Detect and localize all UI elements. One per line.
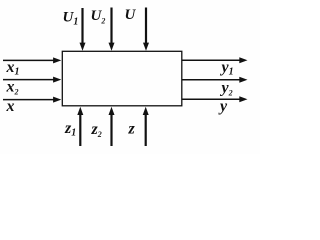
label z2 <box>91 121 102 139</box>
wire output y arrow <box>182 96 248 102</box>
label x <box>6 98 15 115</box>
wire output y2 arrow <box>182 77 248 83</box>
wire input z2 arrow <box>109 107 115 146</box>
label y1 <box>220 59 234 78</box>
svg-text:y: y <box>218 98 228 115</box>
wire input U arrow <box>143 8 149 51</box>
svg-text:y1: y1 <box>220 59 234 78</box>
wire input x arrow <box>3 97 61 103</box>
label U <box>125 7 137 23</box>
svg-text:y2: y2 <box>220 80 233 98</box>
svg-text:U: U <box>125 7 137 23</box>
svg-text:z2: z2 <box>91 121 102 139</box>
svg-text:x2: x2 <box>6 79 19 97</box>
svg-text:z1: z1 <box>64 120 76 139</box>
label y <box>218 98 228 115</box>
svg-text:x: x <box>6 98 15 115</box>
label y2 <box>220 80 233 98</box>
svg-text:U2: U2 <box>91 8 106 26</box>
wire output y1 arrow <box>182 57 248 63</box>
label x1 <box>6 59 20 78</box>
svg-text:z: z <box>128 121 136 138</box>
label z <box>128 121 136 138</box>
wire input x2 arrow <box>3 77 61 83</box>
svg-text:x1: x1 <box>6 59 20 78</box>
svg-text:U1: U1 <box>63 10 79 28</box>
label U1 <box>63 10 79 28</box>
wire input z arrow <box>143 107 149 146</box>
label U2 <box>91 8 106 26</box>
wire input U1 arrow <box>80 8 86 51</box>
block (system box) <box>62 51 182 106</box>
wire input U2 arrow <box>109 8 115 51</box>
wire input z1 arrow <box>77 107 83 146</box>
label z1 <box>64 120 76 139</box>
label x2 <box>6 79 19 97</box>
wire input x1 arrow <box>3 57 61 63</box>
